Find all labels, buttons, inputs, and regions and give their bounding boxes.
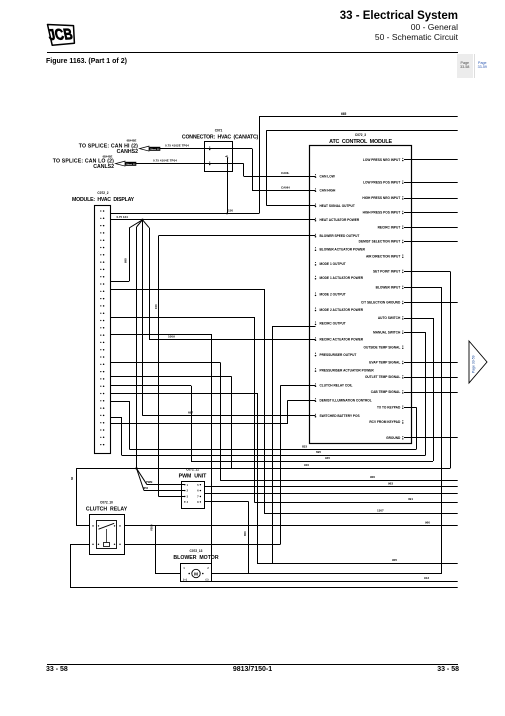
svg-text:900: 900 bbox=[370, 475, 375, 479]
svg-text:C072_10: C072_10 bbox=[100, 500, 113, 504]
svg-text:CONNECTOR: HVAC (CAN/ATC): CONNECTOR: HVAC (CAN/ATC) bbox=[182, 135, 259, 141]
svg-text:C071: C071 bbox=[215, 129, 223, 133]
svg-text:MODE 2 ACTUATOR POWER: MODE 2 ACTUATOR POWER bbox=[320, 308, 364, 312]
svg-text:8: 8 bbox=[197, 501, 199, 504]
svg-text:HEAT ACTUATOR POWER: HEAT ACTUATOR POWER bbox=[320, 218, 360, 222]
svg-text:Sheet 13: Sheet 13 bbox=[150, 148, 160, 151]
svg-text:(-): (-) bbox=[206, 578, 209, 582]
svg-text:RCV FROM KEYPAD: RCV FROM KEYPAD bbox=[369, 420, 401, 424]
svg-text:M: M bbox=[194, 572, 198, 577]
svg-text:CAN LOW: CAN LOW bbox=[320, 174, 335, 178]
svg-text:AIR DIRECTION INPUT: AIR DIRECTION INPUT bbox=[366, 255, 400, 259]
svg-text:7: 7 bbox=[197, 496, 199, 499]
svg-text:M50: M50 bbox=[143, 486, 149, 490]
svg-text:OUTLET TEMP SIGNAL: OUTLET TEMP SIGNAL bbox=[365, 375, 400, 379]
svg-text:960: 960 bbox=[425, 521, 430, 525]
svg-text:945: 945 bbox=[325, 456, 330, 460]
svg-text:AUTO SWITCH: AUTO SWITCH bbox=[378, 316, 401, 320]
svg-text:EVAP TEMP SIGNAL: EVAP TEMP SIGNAL bbox=[369, 361, 400, 365]
svg-text:(+): (+) bbox=[183, 578, 187, 582]
svg-text:Page 33-59: Page 33-59 bbox=[472, 355, 476, 373]
svg-text:CAN HIGH: CAN HIGH bbox=[320, 189, 336, 193]
svg-text:C/T SELECTION GROUND: C/T SELECTION GROUND bbox=[361, 301, 401, 305]
svg-text:HIGH PRESS POS INPUT: HIGH PRESS POS INPUT bbox=[363, 211, 401, 215]
svg-text:698: 698 bbox=[124, 258, 128, 263]
svg-text:82: 82 bbox=[70, 476, 74, 480]
svg-text:LOW PRESS POS INPUT: LOW PRESS POS INPUT bbox=[363, 180, 400, 184]
svg-text:CANL: CANL bbox=[281, 171, 289, 175]
svg-text:C072_11: C072_11 bbox=[186, 468, 199, 472]
svg-text:HEAT SIGNAL OUTPUT: HEAT SIGNAL OUTPUT bbox=[320, 204, 355, 208]
svg-text:1: 1 bbox=[187, 484, 189, 487]
svg-text:MANUAL SWITCH: MANUAL SWITCH bbox=[373, 330, 401, 334]
svg-text:2: 2 bbox=[207, 567, 209, 570]
svg-text:910: 910 bbox=[304, 463, 309, 467]
svg-text:650: 650 bbox=[243, 531, 247, 536]
svg-text:GROUND: GROUND bbox=[386, 436, 401, 440]
svg-text:ATC CONTROL MODULE: ATC CONTROL MODULE bbox=[329, 139, 392, 145]
svg-text:2: 2 bbox=[187, 490, 189, 493]
svg-text:DEMIST SELECTION INPUT: DEMIST SELECTION INPUT bbox=[359, 240, 401, 244]
svg-text:BLOWER INPUT: BLOWER INPUT bbox=[376, 286, 401, 290]
svg-text:1307: 1307 bbox=[377, 509, 384, 513]
svg-text:RECIRC OUTPUT: RECIRC OUTPUT bbox=[320, 322, 346, 326]
svg-text:PWM: PWM bbox=[146, 480, 152, 484]
svg-text:MODULE: HVAC DISPLAY: MODULE: HVAC DISPLAY bbox=[72, 197, 135, 203]
svg-text:LOW PRESS NEG INPUT: LOW PRESS NEG INPUT bbox=[363, 158, 400, 162]
svg-text:Sheet 13: Sheet 13 bbox=[126, 163, 136, 166]
svg-text:391: 391 bbox=[408, 497, 413, 501]
svg-text:0.75 4104E TP04: 0.75 4104E TP04 bbox=[153, 159, 177, 163]
svg-text:CANLS2: CANLS2 bbox=[93, 164, 114, 170]
svg-text:3: 3 bbox=[187, 496, 189, 499]
svg-text:C072_13: C072_13 bbox=[190, 549, 203, 553]
svg-text:RECIRC ACTUATOR POWER: RECIRC ACTUATOR POWER bbox=[320, 338, 364, 342]
svg-text:CANH: CANH bbox=[281, 185, 290, 189]
svg-text:TX TO KEYPAD: TX TO KEYPAD bbox=[377, 406, 401, 410]
svg-text:150: 150 bbox=[228, 208, 233, 212]
svg-text:665: 665 bbox=[341, 112, 347, 116]
svg-text:963: 963 bbox=[388, 482, 393, 486]
svg-text:RECIRC INPUT: RECIRC INPUT bbox=[378, 226, 401, 230]
svg-text:DEMIST ILLUMINATION CONTROL: DEMIST ILLUMINATION CONTROL bbox=[320, 399, 372, 403]
svg-text:BLOWER SPEED OUTPUT: BLOWER SPEED OUTPUT bbox=[320, 234, 360, 238]
svg-text:697: 697 bbox=[188, 411, 193, 415]
svg-text:150: 150 bbox=[154, 304, 158, 309]
svg-text:6B44BE: 6B44BE bbox=[127, 138, 137, 142]
svg-text:CLUTCH RELAY: CLUTCH RELAY bbox=[86, 506, 128, 512]
svg-text:695: 695 bbox=[316, 450, 321, 454]
svg-text:HIGH PRESS NEG INPUT: HIGH PRESS NEG INPUT bbox=[362, 196, 400, 200]
svg-text:PRESSURISER ACTUATOR POWER: PRESSURISER ACTUATOR POWER bbox=[320, 368, 375, 372]
svg-text:PWM UNIT: PWM UNIT bbox=[179, 474, 207, 480]
svg-text:C072_3: C072_3 bbox=[355, 133, 366, 137]
svg-text:0.75 4102E TP04: 0.75 4102E TP04 bbox=[165, 144, 189, 148]
svg-text:5: 5 bbox=[197, 484, 199, 487]
svg-text:905: 905 bbox=[392, 558, 397, 562]
svg-text:V050: V050 bbox=[149, 524, 153, 531]
svg-text:0.75 124: 0.75 124 bbox=[117, 215, 129, 219]
svg-text:SET POINT INPUT: SET POINT INPUT bbox=[373, 270, 400, 274]
svg-text:SWITCHED BATTERY POS: SWITCHED BATTERY POS bbox=[320, 414, 360, 418]
svg-text:MODE 1 OUTPUT: MODE 1 OUTPUT bbox=[320, 262, 346, 266]
svg-text:833: 833 bbox=[302, 444, 307, 448]
svg-text:CLUTCH RELAY COIL: CLUTCH RELAY COIL bbox=[320, 384, 353, 388]
svg-text:BLOWER MOTOR: BLOWER MOTOR bbox=[173, 555, 218, 561]
svg-text:OUTSIDE TEMP SIGNAL: OUTSIDE TEMP SIGNAL bbox=[364, 346, 401, 350]
svg-text:1: 1 bbox=[183, 567, 185, 570]
svg-text:CANHS2: CANHS2 bbox=[117, 149, 138, 155]
svg-text:6: 6 bbox=[197, 490, 199, 493]
svg-text:913: 913 bbox=[424, 576, 429, 580]
svg-text:MODE 2 OUTPUT: MODE 2 OUTPUT bbox=[320, 293, 346, 297]
svg-text:4: 4 bbox=[187, 501, 189, 504]
svg-text:PRESSURISER OUTPUT: PRESSURISER OUTPUT bbox=[320, 353, 357, 357]
svg-text:C072_2: C072_2 bbox=[97, 191, 108, 195]
svg-text:BLOWER ACTUATOR POWER: BLOWER ACTUATOR POWER bbox=[320, 248, 366, 252]
svg-text:CAB TEMP SIGNAL: CAB TEMP SIGNAL bbox=[371, 390, 401, 394]
svg-text:MODE 1 ACTUATOR POWER: MODE 1 ACTUATOR POWER bbox=[320, 276, 364, 280]
